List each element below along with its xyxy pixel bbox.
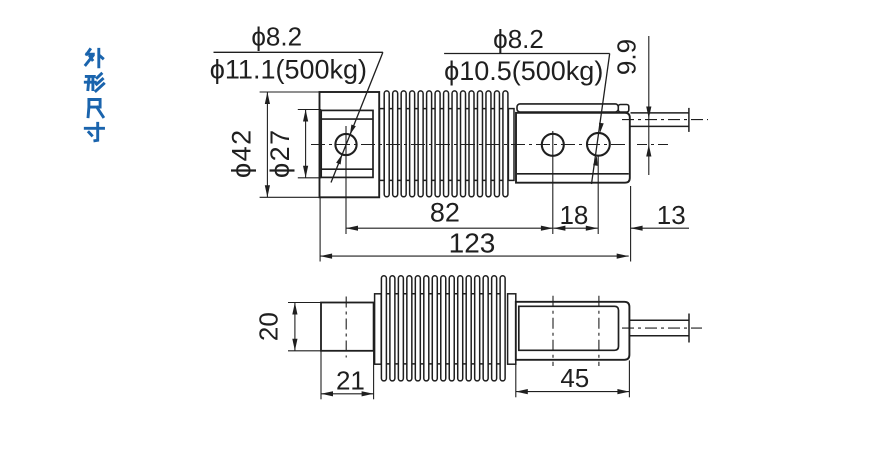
dimension 82 [346, 198, 553, 231]
svg-text:82: 82 [430, 198, 460, 228]
svg-text:ϕ27: ϕ27 [265, 128, 295, 178]
dimension φ27 (bellows root) [265, 110, 321, 179]
label φ8.2 / φ10.5(500kg) for right hole [444, 24, 610, 86]
dimension 21 (boss width) [321, 352, 374, 400]
svg-text:9.9: 9.9 [612, 39, 642, 75]
svg-text:123: 123 [449, 228, 496, 259]
top view left block inner face [321, 110, 373, 177]
top view right block (sensing end) body [516, 113, 630, 183]
svg-text:45: 45 [560, 363, 589, 393]
leader line to right hole [592, 54, 610, 185]
svg-text:ϕ8.2: ϕ8.2 [251, 22, 302, 52]
side view left boss [321, 303, 374, 351]
top view left block mounting hole (φ11.1) [335, 134, 356, 155]
side view bellows corrugations [381, 276, 505, 381]
side view cable [622, 314, 702, 343]
dimension 45 (block width) [516, 360, 630, 397]
top view right block left hole [542, 134, 564, 156]
svg-text:ϕ10.5(500kg): ϕ10.5(500kg) [444, 56, 603, 86]
top view bellows corrugations [384, 91, 508, 197]
side view bellows right collar [508, 294, 516, 364]
dimension 18 [553, 200, 597, 231]
svg-text:ϕ42: ϕ42 [227, 128, 257, 178]
dimension 13 [631, 186, 689, 262]
top view right block right hole (φ10.5) [587, 133, 610, 156]
left hole centerline / extension for dims 82-18 [552, 131, 554, 234]
dimension 123 [320, 197, 629, 261]
label φ8.2 / φ11.1(500kg) for left hole [210, 22, 383, 85]
side view hole centerline 2 [598, 296, 600, 366]
svg-text:13: 13 [657, 200, 686, 230]
side view hole centerline 1 [552, 296, 554, 366]
svg-text:ϕ8.2: ϕ8.2 [493, 24, 544, 54]
top view left mounting block outer body [320, 92, 380, 197]
side view right block body [516, 302, 630, 360]
top view cable [622, 108, 708, 132]
top view right block top sealing plate [517, 104, 629, 112]
leader line to left hole [331, 52, 383, 182]
dimension φ42 (left block height) [227, 92, 320, 197]
svg-text:21: 21 [336, 366, 365, 396]
dimension 9.9 (cable offset) [612, 36, 669, 175]
dimension 20 (boss height) [254, 303, 322, 351]
blue vertical title 外形尺寸 (overall dimensions) [85, 49, 103, 140]
svg-text:20: 20 [254, 312, 284, 341]
side view left boss centerline [345, 297, 347, 358]
left hole vertical centerline / extension line for dim 82 [345, 126, 347, 234]
side view bellows left collar [375, 294, 382, 364]
top view bellows left end collar [379, 109, 384, 181]
top view bellows right end collar [508, 109, 514, 181]
top view horizontal centerline [311, 144, 627, 146]
svg-text:ϕ11.1(500kg): ϕ11.1(500kg) [210, 55, 367, 85]
svg-text:18: 18 [559, 200, 588, 230]
right hole extension line for dims 18-13 [597, 156, 599, 234]
